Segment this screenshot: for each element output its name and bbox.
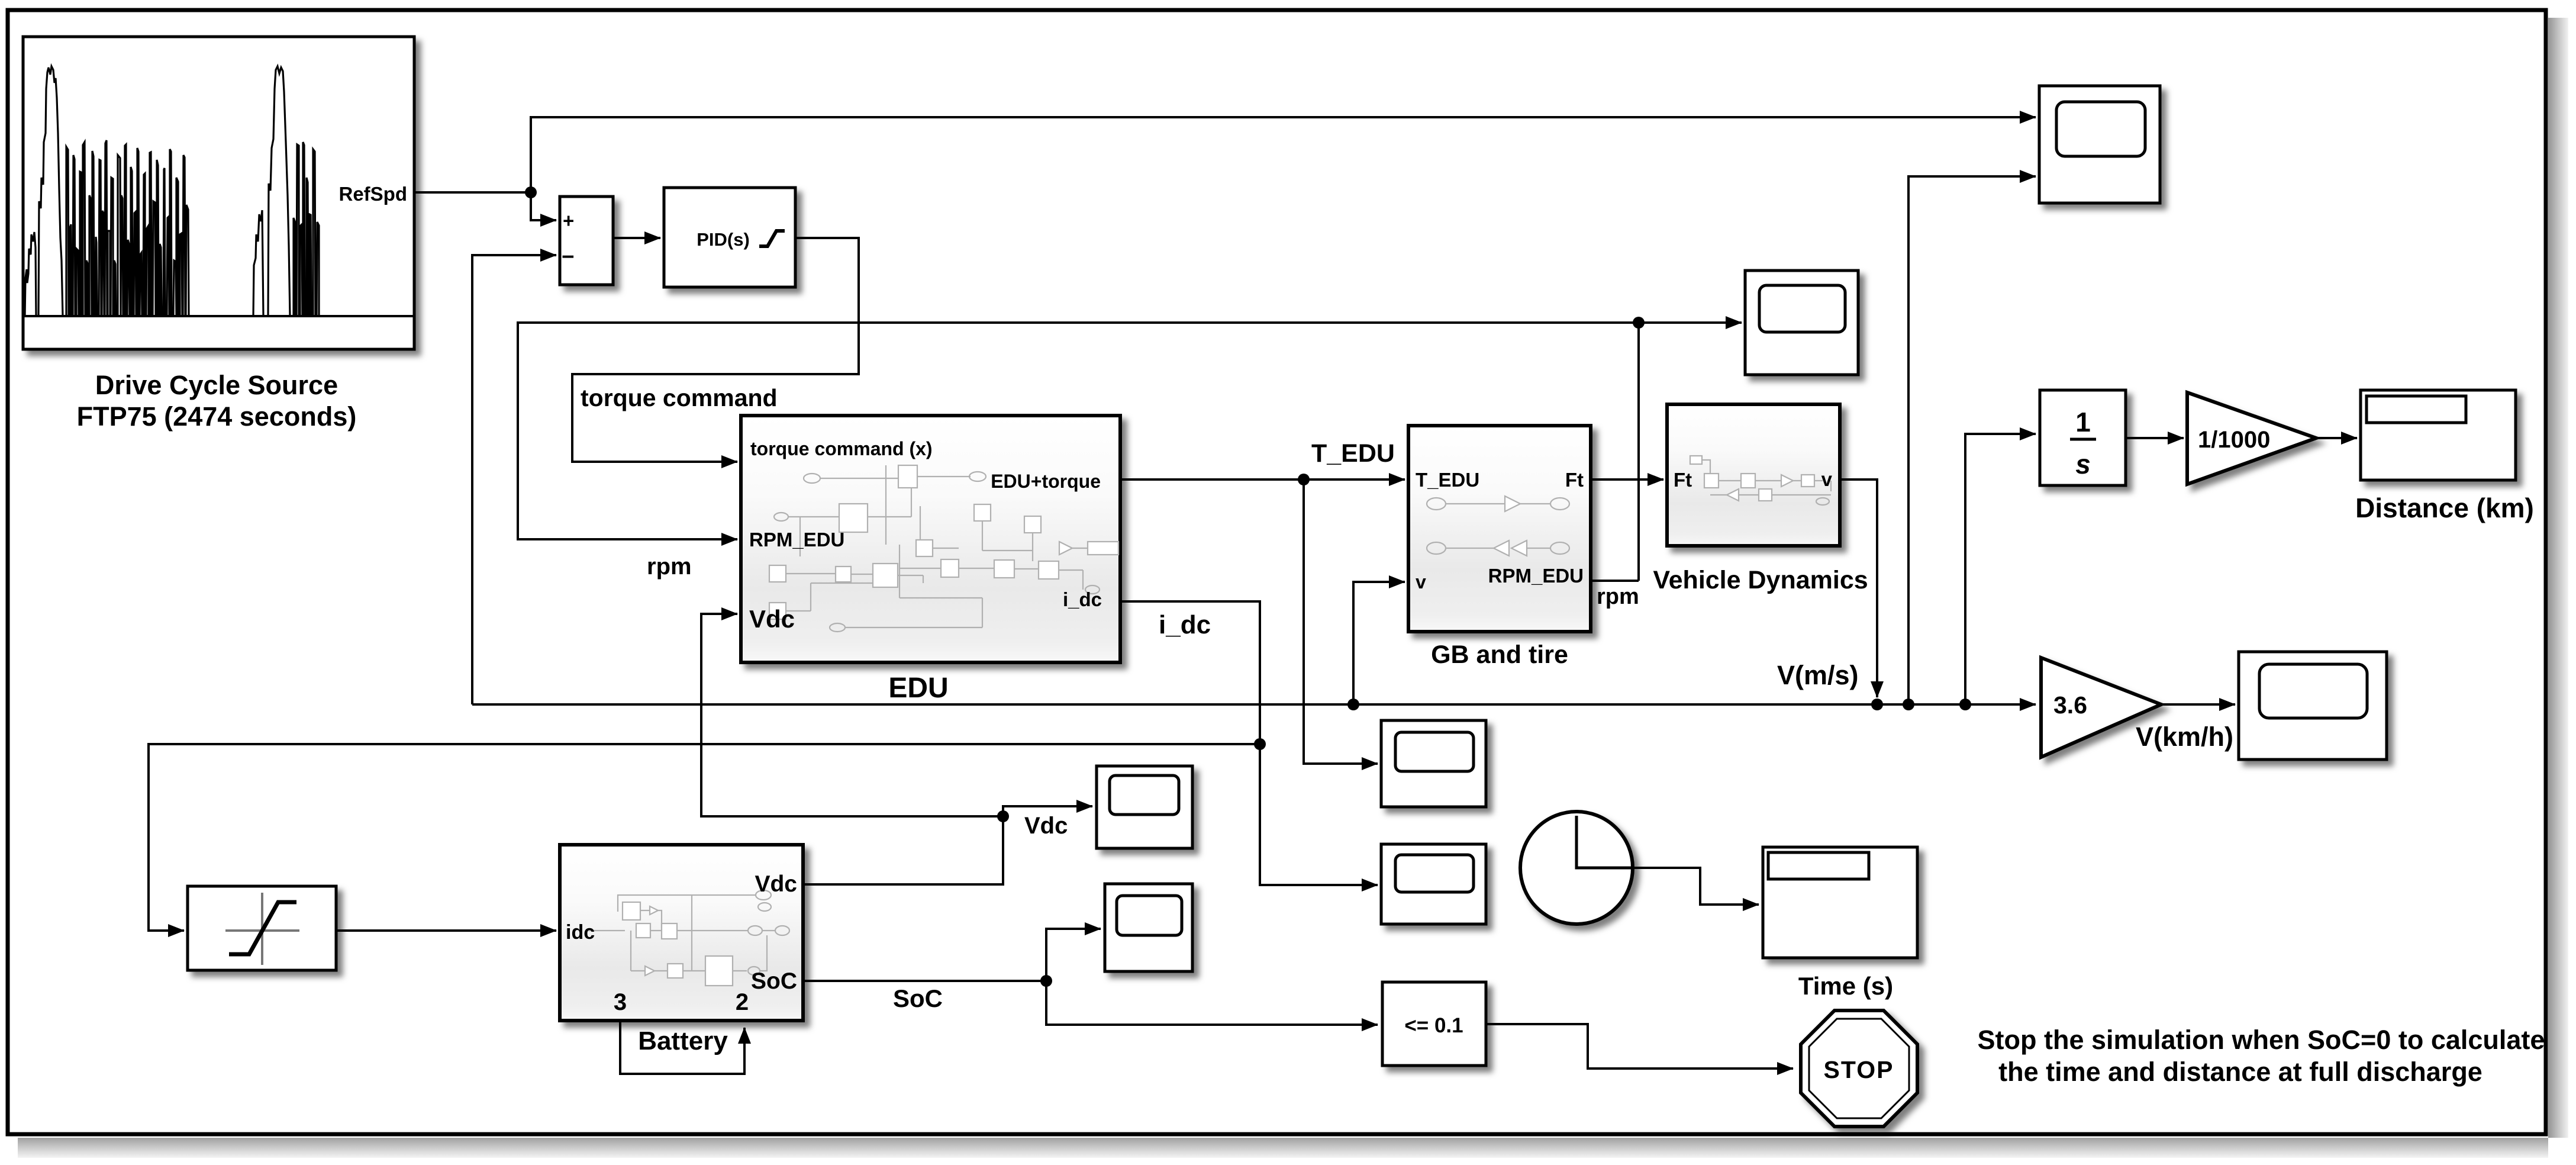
wire saturation output to Battery idc input	[336, 929, 556, 932]
scope rpm (Ft scope)	[1745, 271, 1858, 375]
svg-text:1/1000: 1/1000	[2198, 427, 2270, 453]
svg-text:torque command (x): torque command (x)	[750, 438, 933, 459]
svg-text:s: s	[2075, 449, 2091, 479]
junction node scope branch	[1903, 699, 1914, 710]
svg-text:i_dc: i_dc	[1159, 610, 1211, 639]
STOP block octagon	[1801, 1010, 1917, 1127]
svg-text:Vdc: Vdc	[749, 605, 795, 633]
svg-text:SoC: SoC	[751, 968, 797, 994]
svg-text:Time (s): Time (s)	[1798, 972, 1893, 1000]
wire rpm feedback to EDU RPM_EDU input	[518, 323, 1639, 581]
wire Vdc branch to EDU Vdc input	[701, 614, 1003, 816]
svg-text:Ft: Ft	[1674, 469, 1692, 491]
wire GB v input branch	[1353, 582, 1405, 704]
Vehicle Dynamics subsystem block	[1667, 404, 1840, 546]
svg-text:torque command: torque command	[581, 384, 778, 411]
junction node integrator branch	[1959, 699, 1971, 710]
svg-text:v: v	[1416, 571, 1426, 593]
drive cycle waveform	[25, 66, 319, 316]
svg-text:1: 1	[2075, 407, 2091, 437]
diagram outer frame shadow right	[2548, 18, 2568, 1138]
svg-text:SoC: SoC	[893, 984, 943, 1012]
wire GB RPM_EDU output stub	[1591, 580, 1639, 582]
svg-text:3: 3	[614, 989, 627, 1015]
Distance display block	[2361, 390, 2516, 480]
svg-text:rpm: rpm	[1597, 584, 1639, 609]
scope T_EDU	[1381, 720, 1486, 807]
svg-text:+: +	[563, 210, 574, 231]
wire integrator to gain 1/1000	[2126, 437, 2184, 439]
scope Vdc	[1097, 766, 1192, 848]
PID saturation glyph	[759, 231, 785, 246]
scope V(km/h)	[2239, 652, 2387, 759]
wire rpm branch to scope2	[1639, 321, 1742, 324]
Battery inner mini-diagram	[586, 890, 789, 986]
PID controller block	[664, 188, 795, 287]
svg-text:T_EDU: T_EDU	[1416, 469, 1479, 491]
svg-text:idc: idc	[566, 921, 595, 944]
wire Battery Vdc output to Vdc scope	[803, 806, 1092, 884]
saturation block	[188, 886, 336, 970]
svg-text:RefSpd: RefSpd	[339, 183, 408, 205]
GB inner mini-diagram row 2	[1427, 540, 1569, 556]
wire gain 3.6 to V(km/h) scope	[2161, 703, 2235, 706]
svg-text:EDU+torque: EDU+torque	[991, 471, 1101, 492]
EDU inner mini-diagram	[769, 465, 1118, 632]
wire compare to STOP	[1486, 1024, 1793, 1069]
sum block	[560, 197, 613, 285]
svg-text:v: v	[1821, 468, 1833, 490]
wire RefSpd output to junction	[414, 191, 531, 194]
waveform baseline	[23, 315, 414, 317]
Battery subsystem block	[560, 845, 803, 1021]
junction node Vdc	[997, 810, 1009, 822]
svg-text:RPM_EDU: RPM_EDU	[749, 529, 844, 551]
svg-text:V(km/h): V(km/h)	[2136, 722, 2233, 752]
wire speed to Scope1 input 2	[1908, 176, 2036, 704]
svg-text:V(m/s): V(m/s)	[1777, 660, 1859, 690]
scope i_dc	[1381, 844, 1486, 924]
svg-text:i_dc: i_dc	[1063, 588, 1102, 610]
svg-text:Vdc: Vdc	[755, 871, 797, 897]
junction node GB v branch	[1347, 699, 1359, 710]
wire PID output to EDU torque input	[572, 238, 859, 462]
VD inner mini-diagram	[1690, 456, 1831, 505]
svg-text:T_EDU: T_EDU	[1311, 439, 1395, 468]
svg-text:Ft: Ft	[1565, 469, 1584, 491]
scope SoC	[1105, 884, 1192, 971]
GB inner mini-diagram row 1	[1427, 496, 1569, 511]
clock block	[1520, 812, 1633, 924]
svg-text:Battery: Battery	[638, 1026, 728, 1055]
compare block <= 0.1	[1382, 982, 1486, 1066]
wire VD v output down to speed bus	[1840, 479, 1877, 697]
wire speed to integrator input	[1965, 434, 2036, 704]
junction node SoC	[1040, 975, 1052, 987]
Time display block	[1763, 847, 1917, 958]
Battery feedback loop port3 to port2	[620, 1021, 744, 1074]
wire junction down into Sum + input	[531, 192, 556, 220]
EDU subsystem block	[741, 416, 1120, 662]
svg-text:3.6: 3.6	[2053, 691, 2087, 719]
svg-text:Vehicle Dynamics: Vehicle Dynamics	[1653, 566, 1868, 594]
junction node i_dc branch	[1254, 738, 1266, 750]
wire GB Ft output to Vehicle Dynamics input	[1591, 478, 1663, 481]
wire clock to Time display	[1633, 868, 1759, 905]
svg-text:FTP75 (2474 seconds): FTP75 (2474 seconds)	[77, 401, 357, 432]
svg-text:Distance (km): Distance (km)	[2355, 493, 2534, 523]
svg-text:Stop the simulation when SoC=0: Stop the simulation when SoC=0 to calcul…	[1978, 1025, 2545, 1055]
junction node rpm	[1633, 317, 1645, 329]
wire gain to Distance display	[2316, 437, 2357, 439]
svg-text:2: 2	[736, 989, 749, 1015]
svg-text:<= 0.1: <= 0.1	[1404, 1014, 1463, 1037]
wire EDU+torque output to GB T_EDU input	[1120, 478, 1405, 481]
wire Battery SoC output to SoC scope	[802, 929, 1101, 981]
integrator 1/s block	[2040, 390, 2126, 485]
Drive Cycle Source block	[23, 37, 414, 349]
gain 3.6	[2041, 658, 2161, 757]
wire i_dc branch to saturation	[149, 744, 1260, 931]
wire EDU i_dc output down to scope4	[1120, 601, 1378, 885]
svg-text:the time and distance at full: the time and distance at full discharge	[1998, 1057, 2482, 1087]
svg-text:Drive Cycle Source: Drive Cycle Source	[95, 370, 338, 400]
wire junction up to top line into Scope1 input 1	[531, 117, 2036, 192]
svg-text:Vdc: Vdc	[1024, 813, 1068, 839]
wire Sum output to PID input	[613, 237, 660, 239]
junction node RefSpd	[525, 186, 537, 198]
wire speed feedback up into Sum - input	[472, 255, 556, 704]
scope Speed (2 inputs, top right)	[2039, 86, 2160, 203]
wire SoC branch to compare block	[1046, 981, 1378, 1025]
svg-text:−: −	[562, 244, 575, 269]
speed bus V(m/s) long horizontal wire	[472, 703, 2036, 706]
svg-text:RPM_EDU: RPM_EDU	[1488, 565, 1584, 587]
svg-text:STOP: STOP	[1824, 1056, 1894, 1083]
gain 1/1000	[2187, 392, 2316, 484]
svg-text:rpm: rpm	[647, 553, 692, 580]
junction node T_EDU	[1298, 474, 1310, 485]
svg-text:GB and tire: GB and tire	[1431, 641, 1568, 669]
svg-text:EDU: EDU	[888, 672, 948, 704]
wire T_EDU branch down into scope3	[1304, 479, 1378, 764]
junction node v drop	[1871, 699, 1883, 710]
diagram outer frame shadow bottom	[18, 1138, 2548, 1158]
GB and tire subsystem block	[1408, 426, 1591, 632]
svg-text:PID(s): PID(s)	[697, 229, 750, 250]
